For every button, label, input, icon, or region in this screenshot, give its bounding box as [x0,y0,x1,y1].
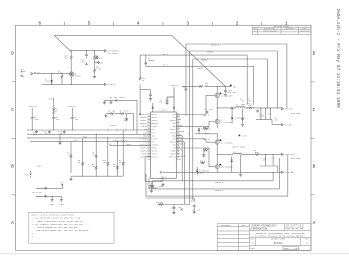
svg-text:3.3VOUT: 3.3VOUT [140,138,147,140]
svg-text:R5: R5 [108,111,110,113]
svg-text:SENSE1+: SENSE1+ [151,117,157,119]
svg-text:12V 100mA: 12V 100mA [108,52,118,55]
svg-text:1000pF: 1000pF [152,188,158,190]
svg-text:C36: C36 [233,86,236,88]
svg-text:SGND: SGND [151,135,155,137]
svg-text:1N4148: 1N4148 [45,81,51,83]
svg-text:1/2 Si4420DY: 1/2 Si4420DY [221,167,233,169]
svg-text:PGND: PGND [50,204,54,206]
svg-text:BOOST1: BOOST1 [170,120,176,122]
svg-text:PGND: PGND [49,99,53,101]
svg-text:TP6: TP6 [178,207,181,209]
svg-text:.1uF: .1uF [113,97,117,99]
svg-text:RUN/SS: RUN/SS [120,97,126,99]
svg-text:470: 470 [263,159,266,161]
svg-text:3.3VOUT: 3.3VOUT [151,138,157,140]
svg-text:+C103: +C103 [98,62,103,64]
svg-text:10: 10 [142,80,144,82]
svg-text:STBYMD: STBYMD [151,126,157,128]
svg-text:TP5: TP5 [60,183,63,185]
svg-text:ITH1: ITH1 [143,132,147,134]
svg-text:.1uF: .1uF [240,101,244,103]
svg-text:B 1B: B 1B [242,136,246,138]
svg-text:SIZE: SIZE [250,239,254,241]
svg-text:SENSE2+: SENSE2+ [207,51,214,53]
svg-text:RUN/SS: RUN/SS [151,114,157,116]
svg-text:SENSE1+: SENSE1+ [201,59,208,61]
svg-text:PGOOD: PGOOD [171,151,176,153]
svg-text:FCB: FCB [151,129,154,131]
svg-text:VOSENSE2: VOSENSE2 [151,144,158,146]
svg-text:EXTVCC: EXTVCC [204,133,210,135]
svg-text:39.2k: 39.2k [113,166,118,168]
svg-text:PROTO RELEASE: PROTO RELEASE [263,30,276,33]
svg-text:(P4): (P4) [74,140,78,142]
svg-text:10k: 10k [112,111,115,113]
svg-text:ITH1: ITH1 [151,132,155,134]
svg-text:.47uF: .47uF [92,155,97,157]
svg-text:RUN/SS3: RUN/SS3 [169,157,175,159]
svg-text:SENSE2+: SENSE2+ [140,151,147,153]
svg-text:AVSNS2-B: AVSNS2-B [211,43,219,46]
svg-text:STBYMD: STBYMD [151,154,157,156]
svg-text:5.2A 15mA: 5.2A 15mA [291,157,301,160]
svg-text:06-07-98: 06-07-98 [301,31,309,33]
svg-text:SENSE3-B: SENSE3-B [215,182,223,184]
svg-text:SENSE1+: SENSE1+ [140,117,147,119]
svg-text:.1uF: .1uF [274,120,278,122]
svg-text:1.0uF: 1.0uF [34,119,39,121]
svg-text:TG2: TG2 [173,147,176,149]
svg-text:.1uF: .1uF [59,133,63,135]
svg-text:DC236A: DC236A [274,242,283,245]
svg-text:470pF: 470pF [259,116,264,118]
svg-text:POL R: POL R [163,54,168,56]
svg-text:+C10: +C10 [267,114,271,116]
svg-text:SENSE3: SENSE3 [170,154,176,156]
svg-text:STBYMD: STBYMD [141,154,147,156]
svg-text:C19 .1uF: C19 .1uF [192,210,200,212]
svg-text:.01uF: .01uF [21,71,26,73]
svg-text:5V-28VIN, 5V/4A 3.3V/4A 12V/1A: 5V-28VIN, 5V/4A 3.3V/4A 12V/1A OUTPUTS [255,235,306,238]
svg-text:ITH2: ITH2 [143,141,147,143]
svg-text:U1, A: U1, A [161,176,168,179]
svg-text:RUN/SS2: RUN/SS2 [140,157,147,159]
svg-text:1/2 Si4420DY: 1/2 Si4420DY [221,122,233,124]
svg-text:ITH2: ITH2 [151,141,155,143]
svg-text:SENSE1-: SENSE1- [197,68,204,70]
svg-text:VOSNS3-B: VOSNS3-B [215,190,223,192]
svg-text:1,200: 1,200 [96,69,101,71]
svg-text:47pF: 47pF [124,120,128,122]
svg-text:48V CT: 48V CT [34,72,40,74]
svg-text:SW1: SW1 [173,117,176,119]
svg-text:+C14: +C14 [271,157,275,159]
svg-text:.015: .015 [254,152,258,154]
svg-text:5V TO 28V: 5V TO 28V [33,192,42,194]
svg-text:10uH: 10uH [241,104,245,106]
svg-text:10.5k: 10.5k [124,111,129,113]
svg-text:TG1: TG1 [173,114,176,116]
svg-text:.1uF: .1uF [74,119,78,121]
svg-text:+5VCC(1): +5VCC(1) [171,85,179,87]
svg-text:LTC1628: LTC1628 [160,109,169,112]
svg-text:FREQSET: FREQSET [140,123,147,125]
svg-text:C20: C20 [171,208,174,210]
svg-text:RUN/SS2: RUN/SS2 [151,157,157,159]
svg-text:SENSE2+: SENSE2+ [151,151,157,153]
svg-text:SENSE2-: SENSE2- [151,147,157,149]
svg-text:SENSE1-: SENSE1- [140,120,147,122]
svg-text:10uF 35V: 10uF 35V [227,92,235,94]
svg-text:D3 MBRS140: D3 MBRS140 [235,118,245,120]
svg-text:BOOST2: BOOST2 [170,141,176,143]
svg-text:+3.3V VOUT: +3.3V VOUT [285,154,295,156]
svg-text:RUN/SS: RUN/SS [141,114,147,116]
svg-text:10: 10 [78,162,80,164]
svg-text:4.7k: 4.7k [58,73,62,75]
svg-text:+5VCC: +5VCC [126,144,131,146]
svg-text:.015: .015 [248,105,252,107]
svg-text:SGND: SGND [143,135,147,137]
svg-text:PGND: PGND [159,186,163,188]
svg-text:+5VCC(1): +5VCC(1) [68,106,76,108]
svg-text:+5V GND: +5V GND [285,124,292,126]
svg-text:.1uF: .1uF [158,101,162,103]
svg-text:.1uF: .1uF [55,119,59,121]
svg-text:+5VCC: +5VCC [37,166,42,168]
svg-text:10k: 10k [92,166,95,168]
svg-text:.1uF: .1uF [44,133,48,135]
svg-text:VOSNS1: VOSNS1 [111,125,117,127]
svg-text:C8: C8 [205,109,207,111]
svg-text:AVSNS3-: AVSNS3- [197,172,204,175]
svg-text:EXTVCC: EXTVCC [170,129,176,131]
svg-text:+5VCC: +5VCC [190,201,195,203]
svg-text:39.2k: 39.2k [119,162,124,164]
svg-text:10: 10 [55,111,57,113]
svg-text:L1: L1 [236,104,238,106]
svg-text:500: 500 [65,58,68,60]
svg-text:DOCUMENT NUMBER: DOCUMENT NUMBER [271,239,285,241]
svg-text:1/2 Si4420DY: 1/2 Si4420DY [221,142,233,144]
svg-text:TP8: TP8 [25,174,28,176]
svg-text:260A.sch-1 - Fri May 07 11:38:: 260A.sch-1 - Fri May 07 11:38:51 1999 [335,9,340,109]
svg-text:BG1, A: BG1, A [203,126,210,129]
svg-text:5.0A 15mg: 5.0A 15mg [291,112,300,115]
svg-text:1 OF 1: 1 OF 1 [294,248,300,250]
svg-text:PHONE 408-432-1900: PHONE 408-432-1900 [285,228,303,230]
svg-text:10k: 10k [103,162,106,164]
svg-text:.47uF: .47uF [67,155,72,157]
svg-text:STBYMD: STBYMD [141,126,147,128]
svg-text:TG1, A: TG1, A [203,114,210,117]
svg-text:OUTPUT IMPDNC: OUTPUT IMPDNC [232,147,245,149]
svg-text:BG2, B: BG2, B [203,148,209,150]
svg-text:GND TP4: GND TP4 [36,196,43,198]
svg-text:FREQSET: FREQSET [151,123,157,125]
svg-text:.1uF: .1uF [209,109,213,111]
svg-text:VOSENSE2: VOSENSE2 [139,144,147,146]
svg-text:4.: 4. [32,235,35,238]
svg-text:SENSE2-: SENSE2- [140,147,147,149]
svg-text:R6: R6 [120,111,122,113]
svg-text:1/2 Si4420DY: 1/2 Si4420DY [221,95,233,97]
svg-text:.1uF: .1uF [247,101,251,103]
svg-text:FOR VALUES ABOVE 1uF, SEE BILL: FOR VALUES ABOVE 1uF, SEE BILL OF MATERI… [32,229,91,232]
svg-text:C4: C4 [110,97,112,99]
svg-text:FCB: FCB [144,129,147,131]
svg-text:+5VCC(1): +5VCC(1) [29,106,37,108]
svg-text:68pF: 68pF [33,134,37,136]
svg-text:REV: REV [306,239,309,241]
svg-text:FZT853: FZT853 [75,75,81,77]
svg-text:BG1: BG1 [173,126,176,128]
svg-text:VIN TP5: VIN TP5 [36,188,43,190]
svg-text:1.8: 1.8 [205,85,208,87]
svg-text:POL B: POL B [163,64,168,66]
svg-text:CB2: CB2 [202,154,205,156]
svg-text:APPROVALS: APPROVALS [222,224,231,227]
svg-text:+12VA(/1): +12VA(/1) [107,83,116,86]
svg-text:R19 100: R19 100 [156,202,163,204]
svg-text:B 4.7: B 4.7 [200,161,205,163]
svg-text:L2: L2 [233,152,235,154]
svg-text:.01uF: .01uF [81,62,86,64]
svg-text:ILIMIT TP-3(1): ILIMIT TP-3(1) [113,140,127,142]
svg-text:TG2, B: TG2, B [203,139,209,141]
svg-text:APPROVED: APPROVED [286,27,294,30]
svg-text:SENSE1-: SENSE1- [151,120,157,122]
svg-text:INTVCC: INTVCC [170,132,176,134]
svg-text:500 1W: 500 1W [96,58,103,60]
svg-text:BG2: BG2 [173,138,176,140]
svg-text:1uF: 1uF [172,213,175,215]
svg-text:PGND: PGND [172,135,176,137]
svg-text:+7VB HIGH(/): +7VB HIGH(/) [107,50,119,52]
svg-text:SGND: SGND [60,204,64,206]
svg-text:DATE: DATE [242,224,246,227]
svg-text:SHEET: SHEET [284,248,289,250]
svg-text:VIN: VIN [173,123,176,125]
svg-text:C35: C35 [183,87,186,89]
svg-text:+5V VOUT: +5V VOUT [285,108,293,110]
svg-text:CORPORATION: CORPORATION [251,228,268,231]
svg-text:+3.3V GND: +3.3V GND [285,172,294,174]
svg-text:SGND: SGND [83,136,87,138]
svg-text:1000pF: 1000pF [148,60,154,62]
svg-text:SW2: SW2 [173,144,176,146]
